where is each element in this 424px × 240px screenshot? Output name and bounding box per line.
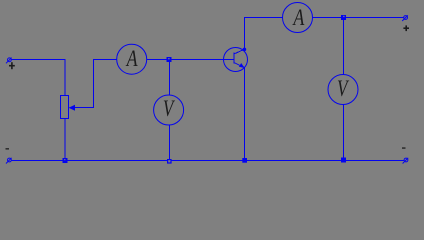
node dot: V1 / bottom rail (open square) (167, 159, 172, 164)
voltmeter V2 circle (328, 75, 358, 105)
wire: V1 bottom to bottom rail (169, 125, 171, 160)
wire: V2 bottom to bottom rail (343, 105, 345, 161)
wire: node down to voltmeter V1 (169, 60, 171, 96)
wire: X1 to corner (top-left horizontal) (11, 59, 65, 61)
wire: potentiometer bottom to bottom rail (64, 119, 66, 161)
bottom rail wire (11, 160, 404, 162)
transistor VT1 collector diagonal (234, 49, 244, 54)
terminal X2 (+ output, top-right) (402, 15, 408, 21)
wire: wiper riser to ammeter A1 (93, 59, 117, 61)
terminal X3 (- input, bottom-left) (6, 158, 12, 164)
transistor collector junction dot (243, 48, 247, 52)
potentiometer wiper arrowhead (69, 105, 75, 111)
wire: A2 to terminal X2 (through node) (313, 17, 404, 19)
polarity sign: - at X3 (6, 148, 10, 149)
transistor VT1 base bar (233, 53, 235, 64)
svg-text:A: A (125, 47, 138, 72)
node dot: A1/V1/base junction (167, 57, 172, 62)
svg-text:A: A (292, 6, 305, 31)
polarity sign: + at X2 (403, 25, 409, 31)
polarity sign: + at X1 (9, 62, 15, 69)
potentiometer R1 body (61, 96, 69, 119)
wire: collector up to top rail (244, 17, 246, 49)
node dot: potentiometer / bottom rail (63, 158, 68, 163)
wire: emitter down to bottom rail (244, 68, 246, 161)
wire: node down to voltmeter V2 (343, 18, 345, 75)
wire: A1 to transistor base (through node) (147, 59, 234, 61)
node dot: A2/V2/X2 junction (341, 15, 346, 20)
potentiometer wiper wire (horizontal) (73, 107, 93, 109)
transistor emitter arrowhead (239, 63, 245, 68)
ammeter A2 circle (283, 3, 313, 33)
transistor VT1 circle (224, 48, 248, 72)
terminal X1 (+ input, top-left) (6, 58, 12, 64)
wire: wiper riser up (93, 59, 95, 108)
voltmeter V1 circle (154, 95, 184, 125)
ammeter A1 circle (117, 44, 147, 74)
node dot: V2 / bottom rail (341, 158, 346, 163)
wire: corner down to potentiometer top (64, 59, 66, 96)
terminal X4 (- output, bottom-right) (403, 158, 409, 164)
node dot: emitter / bottom rail (242, 158, 247, 163)
transistor VT1 emitter diagonal (234, 63, 244, 68)
polarity sign: - at X4 (402, 147, 406, 148)
wire: top rail corner to ammeter A2 (244, 17, 283, 19)
